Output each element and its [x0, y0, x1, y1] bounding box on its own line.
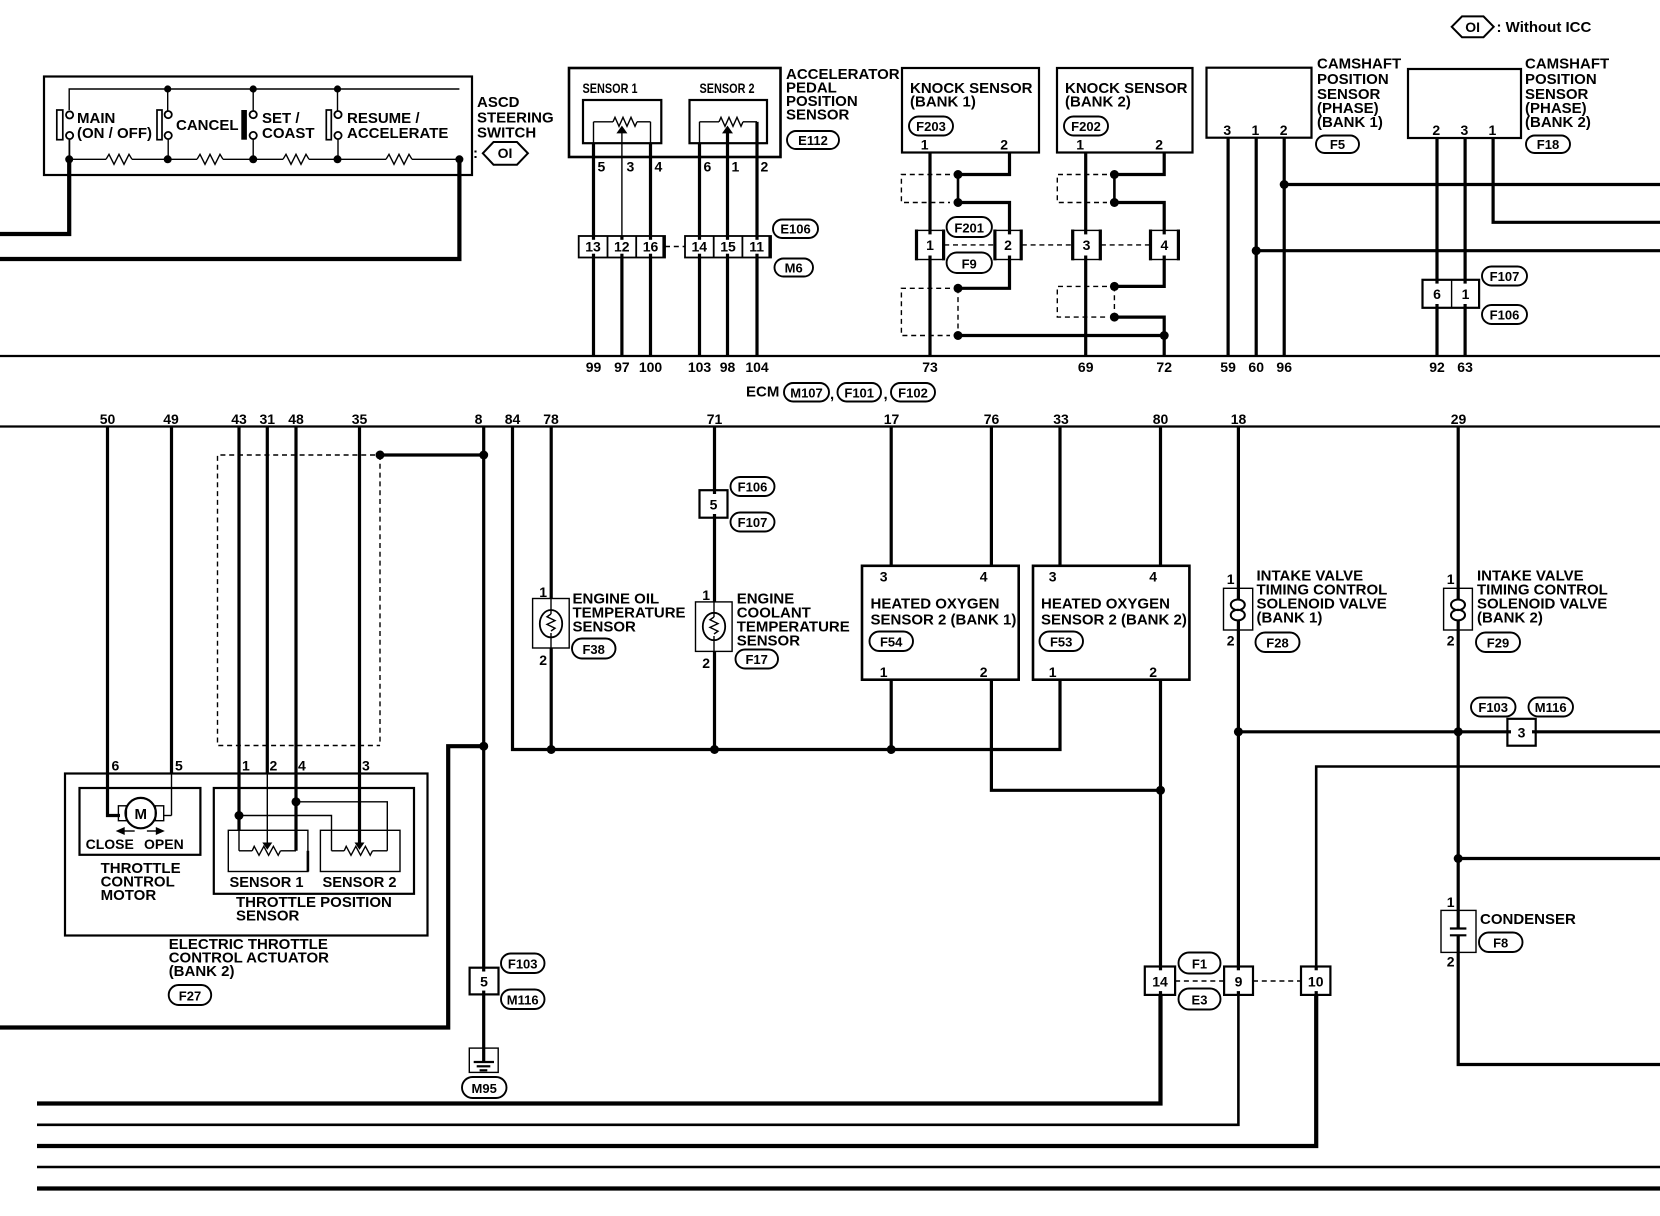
svg-text:29: 29 [1451, 411, 1467, 427]
svg-text:F54: F54 [880, 635, 903, 650]
svg-text:M: M [134, 806, 147, 823]
connector ref F1 [1179, 953, 1221, 974]
svg-text:OI: OI [498, 145, 513, 161]
svg-text:1: 1 [1489, 122, 1497, 138]
svg-text:M116: M116 [1535, 700, 1567, 715]
heated oxygen sensor 2 (bank 2) box [1033, 566, 1189, 680]
wire 14 to ECM 103 [698, 258, 701, 357]
dashed link between connector halves [665, 246, 685, 248]
svg-text:3: 3 [1223, 122, 1231, 138]
svg-text:F202: F202 [1071, 119, 1101, 134]
knock2 upper shield dashed box [1057, 175, 1107, 203]
wire pin6 to connector 14 [698, 143, 701, 236]
svg-text:2: 2 [1432, 122, 1440, 138]
wire cam1 pin2 branch to right edge [1284, 183, 1660, 186]
knock1 lower shield dots [954, 284, 963, 293]
connector 9 (F1/E3) [1224, 967, 1253, 995]
svg-text:F28: F28 [1266, 636, 1288, 651]
svg-text:50: 50 [100, 411, 116, 427]
svg-text:SENSOR 2: SENSOR 2 [700, 80, 755, 96]
svg-text:18: 18 [1231, 411, 1247, 427]
svg-text:SENSOR 1: SENSOR 1 [230, 874, 304, 891]
wire pin3 to connector 12 [621, 143, 623, 236]
knock sensor (bank 2) box [1057, 68, 1193, 153]
wire pin1 to connector 15 [726, 143, 729, 236]
svg-text:2: 2 [980, 664, 988, 680]
wire ECM 18 to solenoid bank1 [1237, 427, 1240, 589]
svg-text:SENSOR: SENSOR [573, 619, 637, 636]
svg-text:F9: F9 [962, 257, 977, 272]
svg-text:4: 4 [655, 159, 663, 175]
wire: ASCD MAIN output down-left [0, 159, 69, 234]
dashed link 1-2 [944, 244, 994, 246]
switch MAIN (ON/OFF) [57, 110, 152, 159]
wire knock1 pin1 down to ECM 73 [928, 153, 931, 357]
svg-text:CONDENSER: CONDENSER [1480, 911, 1576, 928]
wire connector2 to lower shield [958, 260, 1010, 289]
resistor R3 (SET-RESUME) [283, 154, 309, 164]
connector ref F202 [1064, 117, 1108, 136]
ECM label with connector refs M107 F101 F102 [746, 383, 935, 403]
wire: ASCD inner top rail [69, 89, 459, 110]
svg-text:4: 4 [298, 758, 306, 774]
svg-text:71: 71 [707, 411, 723, 427]
svg-text:M95: M95 [472, 1081, 497, 1096]
wire knock1 shield link to bank2 wire [958, 334, 1164, 337]
engine oil temperature sensor F38 [533, 584, 570, 668]
throttle position sensor box [214, 788, 414, 894]
wire knock2 shield to connector 4 [1114, 203, 1164, 231]
svg-text:(BANK 2): (BANK 2) [169, 963, 235, 980]
svg-text:4: 4 [980, 569, 988, 585]
svg-text:F203: F203 [916, 119, 946, 134]
svg-text:1: 1 [1252, 122, 1260, 138]
svg-text:9: 9 [1235, 974, 1243, 990]
svg-text:ECM: ECM [746, 384, 779, 401]
wire knock2 pin1 down to ECM 69 [1084, 153, 1087, 357]
dashed link 3-4 [1101, 244, 1150, 246]
motor M [118, 798, 163, 828]
dashed link 2-3 [1022, 244, 1072, 246]
connector 2 (F201/F9) [994, 230, 1022, 261]
junction dot cam1 pin2 branch [1280, 180, 1289, 189]
svg-text:35: 35 [352, 411, 368, 427]
svg-text:SENSOR: SENSOR [236, 908, 300, 925]
wire ECM 48 to TPS sensor1 [294, 427, 297, 851]
svg-text:96: 96 [1276, 359, 1292, 375]
wire ECM 50 to throttle motor pin6 [108, 427, 121, 816]
svg-text:COAST: COAST [262, 125, 315, 142]
connector ref E112 [787, 131, 839, 149]
wire knock2 shield down to ECM 72 [1114, 317, 1164, 356]
svg-text:100: 100 [639, 359, 663, 375]
wire 15 to ECM 98 [726, 258, 729, 357]
wire connector5 to ground [482, 994, 485, 1061]
connector 1 (F201/F9) [916, 230, 944, 261]
svg-text:F53: F53 [1050, 635, 1072, 650]
wire solenoid1 down to connector 9 [1237, 630, 1240, 967]
connector ref F103 [501, 954, 545, 974]
wire TPS shield to wire8 [380, 453, 484, 456]
wire ECM 78 to oil temp sensor [550, 427, 553, 599]
svg-text:M6: M6 [785, 261, 803, 276]
wire connector4 to lower shield [1114, 260, 1164, 287]
svg-text:12: 12 [614, 239, 630, 255]
svg-text:SENSOR 2 (BANK 1): SENSOR 2 (BANK 1) [871, 612, 1017, 629]
svg-text:1: 1 [1447, 894, 1455, 910]
svg-text:(BANK 1): (BANK 1) [1317, 114, 1383, 131]
svg-text:11: 11 [749, 239, 764, 255]
wire ECM 29 to solenoid bank2 [1457, 427, 1460, 589]
ASCD steering switch box [44, 77, 472, 176]
condenser F8 [1441, 894, 1476, 970]
TPS shield dashed box [218, 455, 381, 746]
svg-text:F1: F1 [1192, 957, 1207, 972]
wire cam1 pin1 branch to right edge [1256, 249, 1660, 252]
resistor R4 (RESUME-end) [386, 154, 412, 164]
wire HO2S1 pin1 to rail [890, 680, 893, 750]
wire pin5 to connector 13 [592, 143, 595, 236]
svg-text:OI: OI [1465, 19, 1480, 35]
heated oxygen sensor 2 (bank 1) box [862, 566, 1019, 680]
svg-text:16: 16 [643, 239, 659, 255]
svg-text:1: 1 [1462, 286, 1470, 302]
svg-text:CANCEL: CANCEL [176, 117, 239, 134]
svg-text:F201: F201 [954, 221, 984, 236]
svg-text:3: 3 [362, 758, 370, 774]
bottom line 4 [37, 1166, 1660, 1169]
svg-text:97: 97 [614, 359, 630, 375]
svg-text:SENSOR: SENSOR [786, 107, 850, 124]
svg-text:MOTOR: MOTOR [101, 887, 157, 904]
connector ref F38 [572, 639, 616, 659]
APP sensor 1 inner box [583, 100, 661, 143]
connector 10 [1301, 967, 1330, 995]
svg-text:78: 78 [543, 411, 559, 427]
knock2 lower shield dots [1110, 282, 1119, 291]
connector ref F27 [169, 985, 212, 1005]
svg-text:E106: E106 [780, 222, 810, 237]
svg-text:M116: M116 [507, 993, 539, 1008]
svg-text:60: 60 [1248, 359, 1264, 375]
svg-text:HEATED OXYGEN: HEATED OXYGEN [871, 596, 1000, 613]
junction dot TPS wire1 branch [235, 811, 244, 820]
wire cam1 pin1 to ECM 60 [1255, 138, 1258, 356]
connector ref F9 [947, 253, 992, 274]
svg-text:3: 3 [880, 569, 888, 585]
svg-text:33: 33 [1053, 411, 1069, 427]
svg-text:F18: F18 [1537, 137, 1559, 152]
svg-text:1: 1 [1076, 137, 1084, 153]
svg-text:,: , [884, 386, 888, 403]
wire ECM 33 to HO2S2 pin3 [1058, 427, 1061, 566]
wire oil temp sensor to rail [550, 648, 553, 750]
connector 14 (F1/E3) [1145, 967, 1175, 995]
svg-text:84: 84 [505, 411, 521, 427]
svg-text:M107: M107 [790, 386, 823, 401]
knock sensor (bank 1) box [902, 68, 1039, 153]
knock1 upper shield dashed box [901, 175, 950, 203]
svg-text:104: 104 [745, 359, 769, 375]
ECM bus line (upper) [0, 355, 1660, 357]
wire 13 to ECM 99 [592, 258, 595, 357]
svg-text:1: 1 [921, 137, 929, 153]
svg-text:5: 5 [480, 974, 488, 990]
connector ref M116 [501, 990, 545, 1010]
bottom line 2 (from connector 9) [37, 995, 1238, 1125]
junction dot wire8 shield link [479, 451, 488, 460]
connector row 14 15 11 (E106/M6) [685, 236, 771, 258]
svg-text:73: 73 [922, 359, 938, 375]
svg-text:1: 1 [1447, 571, 1455, 587]
svg-text:SENSOR 2: SENSOR 2 [323, 874, 397, 891]
svg-text:F107: F107 [738, 515, 768, 530]
svg-text:6: 6 [1433, 286, 1441, 302]
wire pin2 to connector 11 [755, 143, 758, 236]
connector 6|1 (F107/F106) [1423, 280, 1480, 308]
connector row 13 12 16 (E106/M6) [579, 236, 665, 258]
dashed link 14-9 [1175, 980, 1224, 982]
svg-text:8: 8 [475, 411, 483, 427]
APP sensor 2 inner box [690, 100, 768, 143]
hexagon OI tag for ASCD [473, 142, 528, 165]
connector ref M6 [775, 259, 814, 277]
svg-text:1: 1 [539, 584, 547, 600]
connector ref F5 [1316, 136, 1359, 154]
svg-text:F101: F101 [844, 386, 874, 401]
wire TPS wire4 branch to sensor2 [296, 802, 387, 851]
knock1 lower shield dashed box [901, 288, 950, 335]
wire condenser branch to right edge [1458, 857, 1660, 860]
svg-text:92: 92 [1429, 359, 1445, 375]
svg-text:F17: F17 [745, 652, 767, 667]
svg-text:43: 43 [231, 411, 247, 427]
svg-text:3: 3 [1083, 237, 1091, 253]
connector ref F8 [1479, 933, 1523, 953]
bottom line 3 (from connector 10) [37, 995, 1316, 1146]
intake valve timing control solenoid valve (bank 2) [1444, 571, 1473, 649]
svg-text:17: 17 [884, 411, 900, 427]
svg-text:F106: F106 [1490, 308, 1520, 323]
svg-text:2: 2 [1149, 664, 1157, 680]
knock2 lower shield dashed box [1057, 286, 1107, 317]
svg-text:69: 69 [1078, 359, 1094, 375]
wire cam2 pin2 to connector 6 [1435, 138, 1438, 280]
svg-text:4: 4 [1149, 569, 1157, 585]
wire stubs at connector cells [484, 230, 1536, 995]
svg-text:99: 99 [586, 359, 602, 375]
svg-text:F29: F29 [1487, 636, 1509, 651]
connector 3 (F201/F9) [1072, 230, 1101, 261]
junction dot condenser wire on 731.8 [1454, 727, 1463, 736]
svg-text:SENSOR 1: SENSOR 1 [583, 80, 638, 96]
svg-text:59: 59 [1220, 359, 1236, 375]
junction dot solenoid1/line3 [1234, 727, 1243, 736]
svg-text:(BANK 2): (BANK 2) [1525, 114, 1591, 131]
wire ECM 80 to HO2S2 pin4 [1159, 427, 1162, 566]
wire HO2S2 pin2 down to connector 14 [1159, 680, 1162, 967]
svg-text:1: 1 [242, 758, 250, 774]
engine coolant temperature sensor F17 [696, 587, 733, 671]
svg-text:48: 48 [288, 411, 304, 427]
wire cam2 pin3 to connector 1 [1463, 138, 1466, 280]
wire condenser to bottom right edge [1458, 952, 1660, 1064]
connector ref F18 [1526, 136, 1570, 154]
bottom line 5 [37, 1186, 1660, 1190]
svg-text:1: 1 [1049, 664, 1057, 680]
svg-text:1: 1 [732, 159, 740, 175]
svg-text:(BANK 2): (BANK 2) [1065, 94, 1131, 111]
svg-text:(ON / OFF): (ON / OFF) [77, 125, 152, 142]
connector ref F54 [870, 632, 914, 652]
wire ECM 43 to TPS sensor1 [237, 427, 240, 831]
svg-text:ASCD: ASCD [477, 94, 520, 111]
svg-text:2: 2 [1447, 633, 1455, 649]
wire ECM 49 to throttle motor pin5 [170, 427, 173, 774]
svg-text:,: , [830, 386, 834, 403]
junction dot condenser branch [1454, 854, 1463, 863]
connector 3 (F103/M116) [1507, 719, 1535, 746]
svg-text:5: 5 [710, 497, 718, 513]
svg-text:HEATED OXYGEN: HEATED OXYGEN [1041, 596, 1170, 613]
svg-text:SENSOR 2 (BANK 2): SENSOR 2 (BANK 2) [1041, 612, 1187, 629]
wire: ASCD right output down-left [0, 159, 459, 259]
wire pin4 to connector 16 [649, 143, 652, 236]
connector ref F103 [1471, 698, 1516, 717]
connector 5 (F103/M116) on wire 8 [470, 968, 499, 995]
junction dot cam1 pin1 branch [1252, 246, 1261, 255]
switch CANCEL [157, 89, 239, 159]
wire ECM 31 to TPS sensor1 wiper [266, 427, 269, 774]
svg-text:2: 2 [1447, 954, 1455, 970]
connector ref F53 [1040, 632, 1084, 652]
accelerator pedal position sensor box E112 [569, 68, 781, 157]
wire cam2 pin1 branch to right edge [1493, 138, 1660, 222]
svg-text:2: 2 [1004, 237, 1012, 253]
svg-text:1: 1 [880, 664, 888, 680]
switch RESUME / ACCELERATE [326, 89, 448, 159]
camshaft position sensor (phase)(bank 1) box [1207, 68, 1312, 138]
intake valve timing control solenoid valve (bank 1) [1224, 571, 1253, 649]
TPS sensor 1 inner box [228, 830, 308, 871]
wire knock1 shield to connector 2 [958, 203, 1010, 231]
camshaft position sensor (phase)(bank 2) box [1408, 69, 1521, 138]
wire ECM 17 to HO2S1 pin3 [890, 427, 893, 566]
junction dots on ASCD rails [164, 85, 171, 92]
svg-text:31: 31 [260, 411, 276, 427]
svg-text:10: 10 [1308, 974, 1324, 990]
svg-text:5: 5 [175, 758, 183, 774]
svg-text::: : [473, 145, 478, 162]
connector ref M116 [1529, 698, 1574, 717]
svg-text:3: 3 [627, 159, 635, 175]
svg-text:F107: F107 [1490, 269, 1520, 284]
wire cam1 pin2 to ECM 96 [1283, 138, 1286, 356]
resistor R2 (CANCEL-SET) [197, 154, 223, 164]
svg-text:1: 1 [702, 587, 710, 603]
connector ref F28 [1256, 633, 1300, 653]
svg-text:F5: F5 [1330, 137, 1345, 152]
svg-text:14: 14 [1152, 974, 1168, 990]
wire knock1 pin2 to upper shield [958, 153, 1010, 175]
TPS sensor 2 potentiometer [320, 830, 400, 871]
wire solenoid2 down to condenser [1457, 630, 1460, 910]
wire ECM 35 to TPS sensor2 wiper [358, 427, 361, 843]
wire connector6 to ECM 92 [1435, 308, 1438, 356]
svg-text:49: 49 [163, 411, 179, 427]
connector ref F203 [909, 117, 953, 136]
svg-text:F103: F103 [1478, 700, 1508, 715]
wire knock2 pin2 to upper shield [1114, 153, 1164, 175]
connector ref E106 [773, 220, 818, 239]
ECM bus line (lower) [0, 425, 1660, 427]
junction dot TPS wire4 branch [292, 797, 301, 806]
svg-text:2: 2 [702, 655, 710, 671]
svg-text:SWITCH: SWITCH [477, 125, 536, 142]
connector 4 (F201/F9) [1150, 230, 1179, 261]
svg-text:2: 2 [1155, 137, 1163, 153]
throttle control motor box [80, 788, 201, 855]
svg-text:(BANK 1): (BANK 1) [1257, 610, 1323, 627]
svg-text:76: 76 [984, 411, 1000, 427]
bottom line 1 (from connector 14) [37, 995, 1161, 1104]
svg-text:3: 3 [1518, 725, 1526, 741]
connector ref F29 [1476, 633, 1520, 653]
connector ref M95 [462, 1077, 507, 1098]
svg-text:CLOSE: CLOSE [86, 836, 134, 852]
svg-text:98: 98 [720, 359, 736, 375]
wire rail end to HO2S2 pin1 [862, 680, 1060, 750]
wire ECM 8 down [482, 427, 485, 968]
svg-text:13: 13 [585, 239, 601, 255]
connector ref E3 [1179, 989, 1221, 1010]
svg-text:2: 2 [539, 652, 547, 668]
wire 16 to ECM 100 [649, 258, 652, 357]
svg-text:5: 5 [598, 159, 606, 175]
junction dot knock link [1160, 331, 1169, 340]
wire line to connector 3 and right edge [1238, 730, 1660, 733]
svg-text:E3: E3 [1192, 993, 1208, 1008]
connector 5 (F106/F107) on wire 71 [700, 490, 728, 518]
junction dot wire8 ground branch [479, 742, 488, 751]
wire ground branch left and down [0, 746, 484, 1027]
dashed link 9-10 [1253, 980, 1301, 982]
wire: ASCD inner bottom rail (with resistor gaps) [68, 140, 70, 159]
svg-text:F103: F103 [508, 957, 538, 972]
wire cam1 pin3 to ECM 59 [1226, 138, 1229, 356]
svg-text:F38: F38 [582, 642, 604, 657]
svg-text:F8: F8 [1493, 936, 1508, 951]
svg-text:: Without ICC: : Without ICC [1497, 19, 1592, 36]
ground M95 [469, 1048, 498, 1072]
svg-text:63: 63 [1457, 359, 1473, 375]
svg-text:OPEN: OPEN [144, 836, 184, 852]
svg-text:4: 4 [1161, 237, 1169, 253]
wire coolant sensor to rail [713, 651, 716, 749]
svg-text:2: 2 [761, 159, 769, 175]
svg-text:1: 1 [1227, 571, 1235, 587]
junction dot TPS shield [376, 451, 385, 460]
svg-text:14: 14 [692, 239, 708, 255]
electric throttle control actuator box [65, 774, 428, 936]
resistor R1 (MAIN-CANCEL) [106, 154, 132, 164]
connector ref F107 [1482, 267, 1527, 286]
close/open arrows [116, 827, 125, 835]
svg-text:F102: F102 [898, 386, 928, 401]
knock1 upper shield dots [954, 170, 963, 179]
svg-text:6: 6 [704, 159, 712, 175]
wire 11 to ECM 104 [755, 258, 758, 357]
